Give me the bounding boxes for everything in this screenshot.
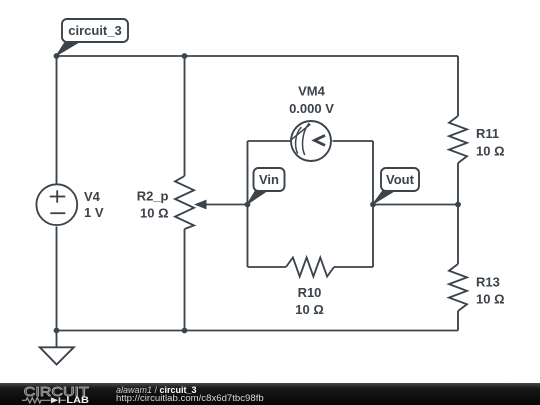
wire Vout node to right rail: [373, 204, 458, 206]
svg-text:10 Ω: 10 Ω: [476, 292, 505, 307]
node circuit_3 flag: [56, 19, 128, 56]
resistor R13: [449, 264, 467, 311]
resistor R10: [286, 258, 334, 277]
wire bottom rail: [57, 330, 459, 332]
potentiometer R2_p: [175, 176, 194, 229]
svg-text:Vin: Vin: [259, 172, 279, 187]
svg-text:10 Ω: 10 Ω: [140, 206, 169, 221]
junction node Vin: [245, 202, 251, 208]
svg-text:10 Ω: 10 Ω: [295, 302, 324, 317]
label R11 value: [476, 126, 505, 159]
ground: [40, 347, 74, 364]
svg-text:R11: R11: [476, 126, 499, 141]
svg-text:10 Ω: 10 Ω: [476, 144, 505, 159]
node Vin flag: [247, 168, 285, 205]
svg-text:R13: R13: [476, 275, 500, 290]
svg-text:http://circuitlab.com/c8x6d7tb: http://circuitlab.com/c8x6d7tbc98fb: [116, 393, 264, 404]
svg-text:R2_p: R2_p: [137, 189, 169, 204]
wire Vin node up: [247, 141, 249, 205]
junction dot bottom pot: [182, 328, 188, 334]
svg-text:VM4: VM4: [298, 84, 326, 99]
CircuitLab logo diode symbol: [51, 397, 66, 403]
svg-text:circuit_3: circuit_3: [68, 23, 121, 38]
CircuitLab logo resistor squiggle: [22, 398, 51, 403]
svg-text:R10: R10: [298, 285, 322, 300]
footer bar: [0, 383, 540, 405]
wire R10 right lead: [334, 266, 373, 268]
label R2_p value: [137, 189, 169, 221]
wire Vout node up: [372, 141, 374, 205]
svg-text:1 V: 1 V: [84, 205, 104, 220]
junction dot right rail: [455, 202, 461, 208]
junction node Vout: [370, 202, 376, 208]
resistor R11: [449, 116, 467, 163]
wire potentiometer branch upper: [184, 56, 186, 176]
junction dot top-left: [54, 53, 60, 59]
wire potentiometer branch lower: [184, 229, 186, 331]
wire voltmeter left: [248, 140, 291, 142]
wire ground stem: [56, 331, 58, 348]
svg-text:Vout: Vout: [386, 172, 415, 187]
label V4 value: [84, 189, 104, 220]
svg-text:LAB: LAB: [66, 395, 89, 405]
wire top rail: [57, 55, 459, 57]
wire right rail middle: [457, 163, 459, 264]
voltage source V4: [36, 184, 77, 225]
voltmeter VM4: [291, 121, 332, 161]
wire voltmeter right: [333, 140, 374, 142]
svg-text:V4: V4: [84, 189, 101, 204]
potentiometer wiper arrow: [194, 200, 207, 210]
wire wiper to Vin node: [205, 204, 248, 206]
junction dot top pot: [182, 53, 188, 59]
wire Vin node down: [247, 205, 249, 268]
svg-text:0.000 V: 0.000 V: [289, 101, 334, 116]
node Vout flag: [372, 168, 419, 205]
label R10 value: [295, 285, 324, 317]
label VM4 value: [289, 84, 334, 117]
wire left rail upper: [56, 56, 58, 184]
wire right rail upper: [457, 56, 459, 116]
junction dot bottom-left: [54, 328, 60, 334]
wire R10 left lead: [248, 266, 287, 268]
wire Vout node down: [372, 205, 374, 268]
wire right rail lower: [457, 311, 459, 331]
wire left rail lower: [56, 227, 58, 331]
label R13 value: [476, 275, 505, 307]
